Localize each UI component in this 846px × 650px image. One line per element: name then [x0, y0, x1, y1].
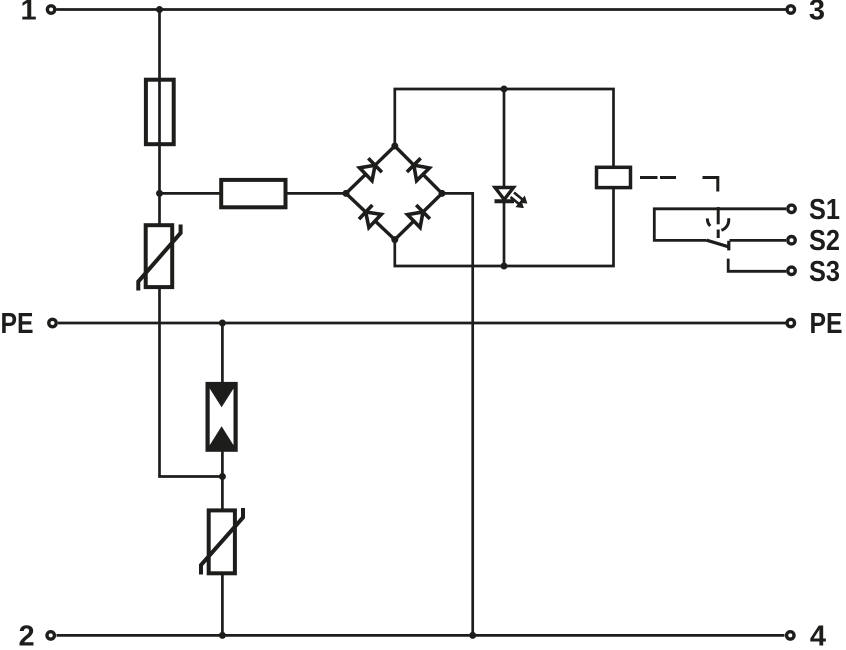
wire LED branch: [503, 89, 506, 266]
wire top rail (terminal 1 to terminal 3): [57, 8, 786, 11]
switch blade tip bar: [727, 241, 730, 251]
switch blade: [707, 240, 729, 247]
gas discharge tube / suppressor: [207, 384, 237, 451]
wire S2: [730, 239, 787, 242]
node junction top rail / left column: [156, 6, 163, 13]
wire varistor2 to bottom rail: [221, 573, 224, 635]
wire S3: [728, 259, 786, 272]
svg-text:S2: S2: [809, 225, 840, 257]
wire GDT to node: [221, 448, 224, 510]
node junction LED / bottom rail: [501, 263, 508, 270]
terminal S1: [788, 205, 795, 212]
node junction resistor branch: [156, 190, 163, 197]
wire PE rail: [58, 322, 786, 325]
terminal 3: [787, 6, 794, 13]
diode D3 (bottom to left): [359, 205, 381, 228]
wire bridge right vertex to bottom rail: [442, 193, 473, 635]
LED: [495, 188, 527, 208]
switch frame and S1 wire: [654, 209, 786, 241]
fuse F1: [146, 80, 174, 145]
node bridge bottom vertex: [391, 236, 398, 243]
dashed mechanical link: [640, 178, 718, 239]
node junction GDT / varistor2: [219, 473, 226, 480]
varistor RV1: [138, 225, 180, 291]
varistor RV2: [201, 508, 243, 575]
node junction LED / top rail: [501, 86, 508, 93]
wire PE to GDT: [221, 323, 224, 385]
svg-text:4: 4: [810, 621, 826, 650]
resistor R1: [221, 180, 285, 207]
terminal S2: [788, 237, 795, 244]
svg-text:S1: S1: [809, 194, 840, 226]
terminal PE left: [49, 319, 56, 326]
relay coil K1: [597, 167, 631, 187]
svg-text:PE: PE: [1, 308, 34, 340]
svg-text:2: 2: [19, 621, 35, 650]
wire left column lower (crosses PE, no junction): [158, 287, 161, 476]
svg-text:S3: S3: [809, 256, 840, 288]
node junction bottom rail / varistor column: [219, 632, 226, 639]
terminal PE right: [787, 319, 794, 326]
svg-text:PE: PE: [810, 308, 843, 340]
diode D2 (right to top): [407, 158, 430, 181]
diode bridge edges: [346, 146, 442, 240]
terminal S3: [788, 267, 795, 274]
node junction bottom rail / bridge return: [469, 632, 476, 639]
terminal 2: [47, 632, 54, 639]
node bridge left vertex: [343, 190, 350, 197]
terminal 4: [787, 632, 794, 639]
wire bottom rail (terminal 2 to terminal 4): [57, 634, 785, 637]
wire jog to GDT column: [158, 475, 222, 478]
svg-text:1: 1: [21, 0, 37, 27]
actuator arc: [707, 218, 728, 230]
node bridge top vertex: [391, 143, 398, 150]
node bridge right vertex: [439, 190, 446, 197]
wire DC top rail (bridge + to relay): [395, 89, 614, 167]
wire left column upper (through fuse): [158, 10, 161, 226]
node junction PE / GDT column: [219, 320, 226, 327]
svg-text:3: 3: [809, 0, 825, 27]
wire DC bottom rail (bridge - to relay): [395, 188, 614, 266]
wire resistor to bridge: [286, 192, 347, 195]
wire resistor branch left: [160, 192, 222, 195]
terminal 1: [47, 6, 54, 13]
diode D4 (bottom to right): [408, 205, 430, 228]
diode D1 (left to top): [360, 158, 382, 181]
